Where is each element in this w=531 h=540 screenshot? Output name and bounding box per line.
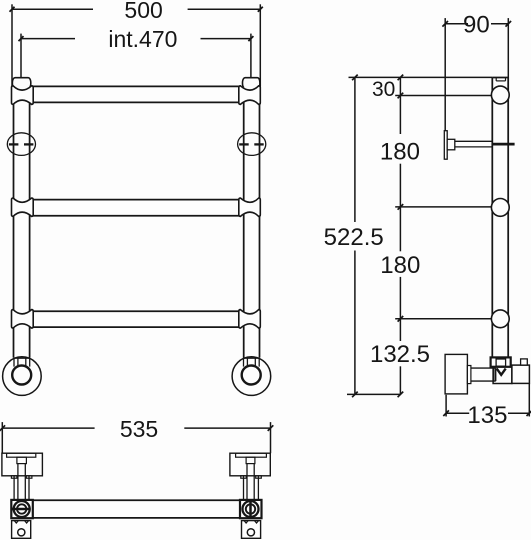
svg-text:180: 180	[380, 138, 420, 165]
dimension 135 right extension	[528, 384, 530, 417]
right foot nut lines	[244, 358, 260, 367]
dimension int.470 line	[21, 38, 251, 40]
dimension 535 line	[2, 427, 270, 429]
valve right cap	[512, 365, 530, 383]
valve right cap top square	[521, 359, 528, 365]
bottom view bar	[33, 500, 240, 518]
right foot plate	[242, 521, 261, 539]
left foot outer circle	[3, 357, 42, 396]
left knob outer circle	[14, 501, 30, 517]
svg-text:132.5: 132.5	[370, 341, 430, 368]
dimension 90 line	[445, 23, 508, 25]
wall bracket rod	[455, 141, 493, 147]
left wall-mount circle	[7, 133, 35, 156]
middle bar	[32, 200, 242, 216]
dimension 522.5 line	[354, 77, 356, 394]
side top reference line	[349, 76, 493, 78]
dimension int.470 right extension	[250, 34, 252, 78]
valve chevron	[497, 368, 506, 374]
right foot outer circle	[232, 357, 271, 396]
chain tick at first rung	[395, 95, 491, 97]
valve nut inner	[496, 359, 506, 366]
side bottom reference line	[347, 393, 401, 395]
top bar	[32, 86, 242, 102]
left unit bracket plate	[7, 453, 36, 457]
left foot plate hole	[18, 529, 25, 536]
right foot plate notches	[244, 521, 258, 523]
fitting middle-left	[12, 198, 34, 216]
right unit bracket stem	[246, 457, 255, 463]
left unit tube lines	[14, 476, 29, 500]
wall bracket plate	[444, 131, 447, 160]
svg-text:90: 90	[463, 12, 490, 39]
side bar end circle middle	[491, 199, 509, 217]
dimension 135 line	[446, 412, 529, 414]
right wall-mount bolt dashes	[239, 143, 264, 145]
wall bracket bolt bold line	[492, 143, 514, 146]
valve wall block	[445, 354, 467, 394]
chain tick at third rung	[395, 318, 491, 320]
dimension 90 left extension	[444, 18, 446, 131]
fitting bottom-left	[12, 310, 34, 329]
right foot plate hole	[247, 529, 254, 536]
side tube	[492, 78, 508, 358]
side bar end circle bottom	[491, 310, 509, 328]
dimension 500 tick right	[258, 7, 263, 12]
left unit wall block	[2, 453, 43, 476]
chain tick at second rung	[395, 206, 491, 208]
dimension 500 tick left	[10, 7, 15, 12]
right unit flanges	[241, 476, 261, 478]
dimension 500 line	[12, 8, 260, 10]
right unit bracket plate	[236, 453, 267, 457]
bottom bar	[32, 311, 242, 327]
dimension junction ticks	[0, 21, 531, 431]
left wall-mount bolt dashes	[9, 143, 34, 145]
left foot plate notches	[14, 521, 28, 523]
dimension int.470 left extension	[20, 34, 22, 78]
side tube cap notch	[496, 78, 505, 81]
fitting top-left with end cap	[12, 78, 34, 105]
left valve square	[11, 500, 33, 518]
dimension int.470 tick left	[19, 36, 24, 41]
left knob inner circle	[17, 504, 26, 513]
dimension 90 right extension	[507, 18, 509, 77]
valve horizontal pipe	[471, 368, 496, 381]
left unit rod lines	[18, 464, 25, 500]
right knob outer circle	[243, 501, 259, 517]
svg-text:30: 30	[372, 78, 395, 101]
right wall-mount circle	[238, 133, 266, 156]
fitting bottom-right	[239, 310, 260, 329]
right knob inner circle	[246, 504, 255, 513]
left foot nut lines	[14, 358, 30, 367]
left foot inner circle	[12, 366, 31, 385]
chain dimension line	[399, 77, 401, 394]
wall bracket collar	[447, 139, 455, 150]
svg-text:522.5: 522.5	[324, 224, 384, 251]
valve body	[493, 367, 512, 384]
dimension 535 right extension	[270, 422, 272, 453]
fitting top-right with end cap	[239, 78, 260, 105]
svg-text:500: 500	[124, 0, 162, 23]
dimension 535 left extension	[1, 422, 3, 453]
right unit wall block	[230, 453, 270, 476]
dimension int.470 tick right	[248, 36, 253, 41]
dimension 135 left extension	[445, 395, 447, 417]
left unit flanges	[11, 476, 32, 478]
fitting middle-right	[239, 198, 260, 216]
svg-text:535: 535	[120, 416, 158, 442]
left tube	[14, 82, 30, 358]
left foot plate	[12, 521, 31, 539]
valve nut bold	[491, 357, 511, 366]
right valve square	[240, 500, 262, 518]
svg-text:180: 180	[380, 252, 420, 279]
dimension 500 right extension	[259, 4, 261, 86]
right unit tube lines	[244, 476, 259, 500]
right unit rod lines	[247, 464, 254, 500]
side bar end circle top	[491, 86, 509, 104]
valve neck	[467, 366, 471, 384]
right foot inner circle	[242, 366, 261, 385]
right knob slot	[249, 502, 252, 517]
left unit bracket stem	[17, 457, 27, 463]
left knob slot	[11, 508, 31, 511]
right tube	[244, 82, 260, 358]
svg-text:135: 135	[467, 402, 507, 429]
dimension 500 left extension	[11, 4, 13, 86]
svg-text:int.470: int.470	[108, 26, 177, 52]
